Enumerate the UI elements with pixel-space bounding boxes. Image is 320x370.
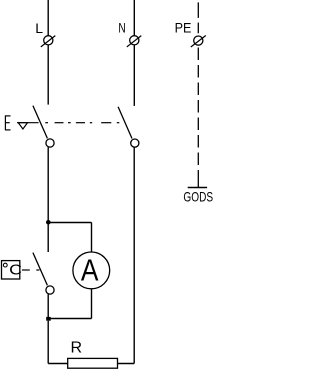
wire N top xyxy=(133,0,135,36)
thermostat contact circle xyxy=(46,286,54,294)
wire bottom to resistor xyxy=(48,363,67,365)
thermostat dashed link xyxy=(22,269,40,271)
wire branch top horizontal xyxy=(48,222,91,224)
thermostat B1 box xyxy=(2,261,20,279)
wire below thermostat contact xyxy=(47,294,49,318)
switch blade pole N xyxy=(118,107,132,139)
svg-text:R: R xyxy=(71,339,83,356)
wire N down full xyxy=(133,147,135,363)
mechanical linkage dash-dot xyxy=(45,122,119,124)
wire ammeter bottom xyxy=(91,289,93,318)
wire resistor to N xyxy=(118,363,135,365)
degree symbol circle xyxy=(3,263,7,267)
wire L top xyxy=(47,0,49,36)
terminal X1 (L) xyxy=(41,36,56,47)
wire L mid xyxy=(47,147,49,222)
svg-text:C: C xyxy=(9,262,22,278)
node junction 1 xyxy=(46,220,51,225)
svg-text:GODS: GODS xyxy=(183,189,213,205)
terminal X2 (N) xyxy=(127,36,142,47)
svg-text:A: A xyxy=(81,254,99,288)
contact circle pole N xyxy=(131,139,139,147)
wire branch down to ammeter xyxy=(91,223,93,252)
node junction 2 xyxy=(46,317,51,321)
wire main bottom left xyxy=(47,321,49,364)
terminal X3 (PE) xyxy=(191,36,206,48)
resistor R body xyxy=(68,358,118,368)
ground bar GODS xyxy=(188,187,207,189)
switch Q1 pole L actuator E xyxy=(5,115,10,130)
svg-text:PE: PE xyxy=(175,20,192,36)
actuator triangle xyxy=(18,123,27,129)
wire PE dashed top xyxy=(197,2,199,33)
svg-text:L: L xyxy=(35,20,43,36)
svg-text:N: N xyxy=(118,20,125,36)
wire PE dashed down xyxy=(197,48,199,188)
contact circle pole L xyxy=(46,139,54,147)
wire above thermostat blade xyxy=(47,225,49,253)
actuator rod xyxy=(17,122,39,124)
switch blade pole L xyxy=(33,106,48,139)
thermostat switch blade xyxy=(33,253,48,286)
ammeter P1 xyxy=(73,252,110,289)
wire N to switch xyxy=(133,45,135,106)
wire L to switch xyxy=(47,45,49,105)
wire branch bottom horizontal xyxy=(48,318,91,320)
